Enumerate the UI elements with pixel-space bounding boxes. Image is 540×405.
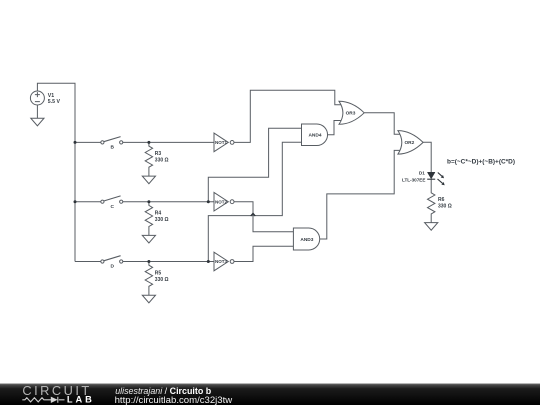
svg-text:http://circuitlab.com/c32j3tw: http://circuitlab.com/c32j3tw: [115, 395, 233, 405]
svg-text:NOT2: NOT2: [215, 199, 227, 204]
svg-text:AND3: AND3: [300, 237, 313, 243]
svg-text:V1: V1: [48, 93, 54, 99]
svg-text:NOT3: NOT3: [215, 259, 227, 264]
svg-text:330 Ω: 330 Ω: [155, 277, 169, 283]
svg-text:R4: R4: [155, 211, 162, 217]
svg-text:OR3: OR3: [346, 111, 356, 117]
svg-text:R5: R5: [155, 270, 162, 276]
svg-text:b=(~C*~D)+(~B)+(C*D): b=(~C*~D)+(~B)+(C*D): [447, 159, 515, 166]
svg-text:R6: R6: [438, 197, 445, 203]
svg-text:LTL-307EE: LTL-307EE: [402, 177, 425, 182]
svg-text:NOT1: NOT1: [215, 140, 227, 145]
svg-text:OR2: OR2: [404, 140, 414, 146]
svg-text:330 Ω: 330 Ω: [155, 158, 169, 164]
svg-text:C: C: [110, 204, 114, 210]
svg-text:R3: R3: [155, 151, 162, 157]
svg-text:AND4: AND4: [308, 133, 321, 139]
svg-text:5.5 V: 5.5 V: [48, 99, 61, 105]
svg-text:D: D: [110, 264, 114, 270]
svg-text:330 Ω: 330 Ω: [155, 217, 169, 223]
svg-text:330 Ω: 330 Ω: [438, 203, 452, 209]
svg-text:D1: D1: [419, 171, 425, 176]
svg-text:LAB: LAB: [67, 394, 92, 404]
svg-text:B: B: [110, 145, 114, 151]
